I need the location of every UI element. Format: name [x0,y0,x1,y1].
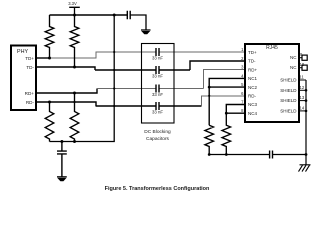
svg-text:33 nF: 33 nF [152,92,163,97]
capacitor bypass at 3.3V rail [127,11,130,19]
ground (chassis, bottom right) [299,165,311,172]
node bias cap tap [60,140,63,143]
svg-text:DC Blocking: DC Blocking [144,129,171,135]
ground (top, signal gnd) [141,30,151,34]
svg-text:14: 14 [300,106,305,111]
svg-text:NC3: NC3 [248,102,257,107]
svg-text:RD+: RD+ [25,91,35,96]
svg-text:NC: NC [290,55,297,60]
svg-text:NC1: NC1 [248,76,257,81]
wire shield stub pin 11 [299,79,306,81]
svg-text:SHIELD: SHIELD [280,109,297,114]
svg-text:NC4: NC4 [248,111,257,116]
svg-text:TD-: TD- [26,65,34,70]
wire TD- from PHY to jog [36,67,95,70]
wire RJ45 pin8 NC4 tie [226,112,245,114]
capacitor C1 33nF [152,48,163,60]
svg-text:SHIELD: SHIELD [280,88,297,93]
capacitor bias decoupling [57,142,67,177]
node crossing artifacts on bias drop [113,51,115,53]
wire RD- from PHY to jog [36,102,96,107]
svg-text:12: 12 [300,85,305,90]
node junction dots [48,14,307,156]
wire TD+ row1 to RJ45 pin1 [50,52,246,58]
wire RD+ from PHY to jog [36,89,97,94]
node tie 4/5 junction [208,86,211,89]
svg-text:13: 13 [300,95,305,100]
node tie 7/8 junction [225,112,228,115]
resistor R4 (RD- pull-up) [45,102,54,142]
svg-text:33 nF: 33 nF [152,73,163,78]
capacitor C2 33nF [152,66,163,78]
wire shield stub pin 12 [299,89,306,91]
node crossing artifact RD- x R3 lead [73,101,75,103]
pin 10 NC stub and open square [299,67,302,69]
svg-text:RD+: RD+ [248,67,257,72]
capacitor C3 33nF [152,85,163,97]
wire shield bus [305,80,307,165]
resistor R3 (RD+ pull-up) [70,93,79,142]
node bias R3 tap [73,140,76,143]
svg-text:TD-: TD- [248,59,256,64]
PHY block U1 [11,46,36,111]
wire RJ45 pin5 NC2 tie [209,86,245,88]
svg-text:TD+: TD+ [25,56,34,61]
capacitor C5 (shield coupling) [270,151,273,159]
svg-text:RJ45: RJ45 [266,45,278,51]
svg-text:Capacitors: Capacitors [146,136,170,142]
wire TD- row2 to riser [95,69,190,71]
power 3.3V supply symbol [68,1,80,15]
pin 9 NC stub and open square [299,57,302,59]
ground (bottom-left, signal gnd) [57,177,67,181]
svg-text:TD+: TD+ [248,50,257,55]
svg-text:33 nF: 33 nF [152,109,163,114]
node termination line taps [208,153,211,156]
svg-text:SHIELD: SHIELD [280,78,297,83]
node RD+ tap [73,92,76,95]
wire RJ45 pin4 NC1 tie [209,78,245,125]
wire TD+ from PHY to tap [36,57,50,59]
node RD- tap [48,101,51,104]
wire shield stub pin 14 [299,110,306,112]
wire riser row3 to RJ45 pin3 [204,70,245,89]
wire bypass cap to ground [130,15,146,30]
resistor R6 (Bob Smith 7/8) [222,113,231,154]
node rail-supply junction [73,14,76,17]
label DC Blocking Capacitors [144,129,171,142]
svg-text:SHIELD: SHIELD [280,98,297,103]
RJ45 connector J1 [245,44,299,122]
node rail-bias junction [113,14,116,17]
resistor R1 (TD+ pull-up) [45,15,54,58]
DC blocking capacitor group box [142,44,175,124]
wire riser row2 to RJ45 pin2 [190,61,245,70]
wire riser row4 to RJ45 pin6 [202,96,246,106]
wire shield stub pin 13 [299,100,306,102]
svg-text:Figure 5. Transformerless Conf: Figure 5. Transformerless Configuration [105,186,210,192]
svg-text:NC: NC [290,65,297,70]
svg-text:PHY: PHY [17,49,28,55]
capacitor C4 33nF [152,102,163,114]
wire termination bottom line right [273,154,307,156]
node shield bus junctions [305,89,308,92]
svg-text:11: 11 [300,75,305,80]
svg-text:3.3V: 3.3V [68,1,77,6]
node TD- tap [73,66,76,69]
wire 3.3V rail [50,14,128,16]
resistor R5 (Bob Smith 4/5) [205,125,214,154]
svg-text:RD-: RD- [26,100,35,105]
svg-text:33 nF: 33 nF [152,55,163,60]
wire RD+ row3 to riser [97,88,204,90]
node TD+ tap [48,57,51,60]
svg-text:RD-: RD- [248,94,256,99]
wire RJ45 pin7 NC3 tie [226,105,245,114]
wire RD- row4 to riser [96,105,202,107]
resistor R2 (TD- pull-up) [70,15,79,67]
wire 3.3V bias drop line [50,15,115,142]
wire termination bottom line left [209,154,269,156]
svg-text:NC2: NC2 [248,85,257,90]
